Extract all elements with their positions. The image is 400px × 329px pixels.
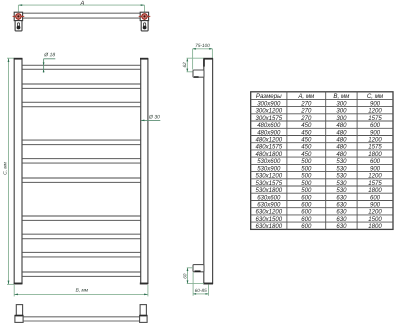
table header text xyxy=(256,93,384,100)
bottom view right foot xyxy=(140,315,148,322)
svg-text:530: 530 xyxy=(336,159,347,165)
svg-text:480: 480 xyxy=(336,130,347,136)
left keyhole plate xyxy=(15,21,22,31)
left red mount target xyxy=(13,14,25,22)
svg-text:500: 500 xyxy=(301,159,312,165)
svg-text:1500: 1500 xyxy=(368,217,382,223)
svg-text:600: 600 xyxy=(370,195,381,201)
dimension 60 (bottom side) xyxy=(183,268,204,284)
svg-text:450: 450 xyxy=(301,130,312,136)
dimension A line xyxy=(18,5,144,16)
svg-text:480х600: 480х600 xyxy=(257,123,281,129)
svg-text:900: 900 xyxy=(370,203,381,209)
side view top bracket arm xyxy=(193,70,204,77)
dimension 62 xyxy=(183,58,204,72)
svg-text:600: 600 xyxy=(301,195,312,201)
bottom view left foot xyxy=(15,315,23,322)
svg-text:530х600: 530х600 xyxy=(257,159,281,165)
side view post xyxy=(203,59,213,284)
table grid xyxy=(251,92,393,230)
svg-text:С, мм: С, мм xyxy=(367,93,384,100)
svg-text:480х1800: 480х1800 xyxy=(256,152,283,158)
svg-text:500: 500 xyxy=(301,181,312,187)
svg-text:500: 500 xyxy=(301,166,312,172)
svg-text:1200: 1200 xyxy=(368,174,382,180)
svg-text:630х900: 630х900 xyxy=(257,203,281,209)
svg-text:300х900: 300х900 xyxy=(257,101,281,107)
svg-text:630х1500: 630х1500 xyxy=(256,217,283,223)
svg-text:1200: 1200 xyxy=(368,138,382,144)
svg-text:1800: 1800 xyxy=(368,224,382,230)
svg-text:630: 630 xyxy=(336,224,347,230)
svg-text:530: 530 xyxy=(336,174,347,180)
svg-text:600: 600 xyxy=(301,203,312,209)
right red mount target xyxy=(139,14,151,22)
svg-text:600: 600 xyxy=(301,217,312,223)
dimension B label xyxy=(76,288,88,292)
svg-text:1800: 1800 xyxy=(368,152,382,158)
svg-text:500: 500 xyxy=(301,174,312,180)
svg-text:900: 900 xyxy=(370,101,381,107)
dimension B arrows xyxy=(14,294,148,296)
svg-text:1800: 1800 xyxy=(368,188,382,194)
dimension B line xyxy=(14,285,148,296)
svg-text:450: 450 xyxy=(301,145,312,151)
svg-text:530х1800: 530х1800 xyxy=(256,188,283,194)
svg-text:600: 600 xyxy=(370,123,381,129)
right bracket square xyxy=(140,12,148,20)
svg-text:630: 630 xyxy=(336,217,347,223)
svg-text:530: 530 xyxy=(336,188,347,194)
svg-text:1575: 1575 xyxy=(368,116,382,122)
svg-text:480х1575: 480х1575 xyxy=(256,145,283,151)
svg-text:630: 630 xyxy=(336,203,347,209)
top view bar (two tube lines) xyxy=(23,13,141,18)
svg-text:900: 900 xyxy=(370,130,381,136)
front right post xyxy=(140,59,148,284)
dimension C arrows xyxy=(8,58,10,284)
svg-text:450: 450 xyxy=(301,123,312,129)
callout diameter 30 xyxy=(141,115,160,121)
svg-text:450: 450 xyxy=(301,152,312,158)
svg-text:300х1200: 300х1200 xyxy=(256,109,283,115)
svg-text:480х1200: 480х1200 xyxy=(256,138,283,144)
callout diameter 18 xyxy=(43,53,56,73)
svg-text:480: 480 xyxy=(336,145,347,151)
table data text xyxy=(256,101,383,230)
dimension C label xyxy=(3,162,7,174)
svg-text:В, мм: В, мм xyxy=(333,93,350,100)
svg-text:630х1200: 630х1200 xyxy=(256,210,283,216)
right keyhole plate xyxy=(141,21,148,31)
front left post xyxy=(14,59,23,284)
svg-text:450: 450 xyxy=(301,138,312,144)
svg-text:600: 600 xyxy=(370,159,381,165)
svg-text:270: 270 xyxy=(300,116,312,122)
front view rungs (10 bars) xyxy=(22,65,141,276)
svg-text:300х1575: 300х1575 xyxy=(256,116,283,122)
svg-text:530х900: 530х900 xyxy=(257,166,281,172)
svg-text:480: 480 xyxy=(336,138,347,144)
bottom view left post stub xyxy=(16,305,22,316)
dimension C line xyxy=(7,58,14,284)
svg-text:600: 600 xyxy=(301,210,312,216)
side view bottom bracket arm xyxy=(193,265,204,272)
dimension A arrows xyxy=(18,4,144,6)
svg-text:530: 530 xyxy=(336,166,347,172)
dimension 75-100 xyxy=(193,44,213,70)
svg-text:Размеры: Размеры xyxy=(256,93,282,100)
svg-text:270: 270 xyxy=(300,101,312,107)
svg-text:1575: 1575 xyxy=(368,181,382,187)
svg-text:530х1575: 530х1575 xyxy=(256,181,283,187)
svg-text:900: 900 xyxy=(370,166,381,172)
svg-text:480х900: 480х900 xyxy=(257,130,281,136)
svg-text:530х1200: 530х1200 xyxy=(256,174,283,180)
svg-text:А, мм: А, мм xyxy=(297,93,315,100)
svg-text:1200: 1200 xyxy=(368,109,382,115)
svg-text:600: 600 xyxy=(301,224,312,230)
svg-text:1200: 1200 xyxy=(368,210,382,216)
svg-text:480: 480 xyxy=(336,152,347,158)
svg-text:1575: 1575 xyxy=(368,145,382,151)
svg-text:300: 300 xyxy=(336,109,347,115)
svg-text:630х600: 630х600 xyxy=(257,195,281,201)
svg-text:630: 630 xyxy=(336,195,347,201)
left bracket square xyxy=(14,12,22,20)
bottom view right post stub xyxy=(140,305,146,316)
svg-text:630: 630 xyxy=(336,210,347,216)
svg-text:300: 300 xyxy=(336,101,347,107)
svg-text:530: 530 xyxy=(336,181,347,187)
svg-text:480: 480 xyxy=(336,123,347,129)
svg-text:630х1800: 630х1800 xyxy=(256,224,283,230)
dimension A label xyxy=(80,1,84,5)
svg-text:270: 270 xyxy=(300,109,312,115)
svg-text:300: 300 xyxy=(336,116,347,122)
dimension 60-85 xyxy=(193,272,208,296)
svg-text:500: 500 xyxy=(301,188,312,194)
bottom view rail tube xyxy=(23,317,140,321)
